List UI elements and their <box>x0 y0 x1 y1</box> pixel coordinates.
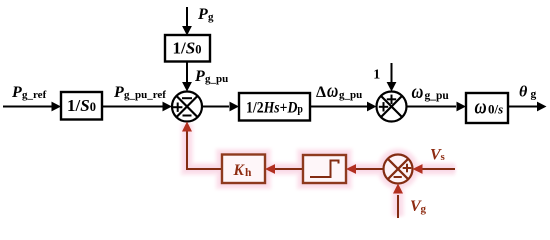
svg-text:g: g <box>208 11 214 23</box>
sign minus (bottom of junction 1) <box>183 115 192 117</box>
svg-text:g: g <box>421 203 427 215</box>
wire: junction1 to 1/2Hs+Dp <box>202 106 229 108</box>
summing junction 1 <box>172 92 202 122</box>
svg-text:0/s: 0/s <box>488 102 503 117</box>
arrowhead into box 1/S0 (top) <box>182 26 192 36</box>
sign minus (bottom of red junction) <box>394 176 402 178</box>
arrowhead into box 1/S0 (left) <box>52 102 62 112</box>
wire: Vg input (red, bottom) <box>397 195 399 218</box>
svg-text:g: g <box>531 89 537 101</box>
wire: P_g_ref input line <box>3 106 53 108</box>
svg-text:ω: ω <box>412 80 424 103</box>
svg-text:1: 1 <box>373 68 380 83</box>
sign plus (right of red junction) <box>403 167 412 169</box>
wire: P_g input (top) <box>186 7 188 27</box>
wire: delta omega_g_pu <box>310 106 368 108</box>
block Kh (red) <box>222 155 265 184</box>
arrowhead into summing junction 1 (top) <box>182 82 192 92</box>
red feedback: wire from Kh to junction 1 (corner) <box>187 131 222 170</box>
block 1/2Hs+Dp <box>239 93 310 121</box>
svg-text:ω: ω <box>475 96 487 119</box>
svg-text:K: K <box>233 162 246 179</box>
sign minus (top of junction 1) <box>182 97 192 99</box>
wire: theta_g output <box>508 106 537 108</box>
arrowhead into 1/2Hs+Dp <box>230 102 240 112</box>
block 1/S0 (left) <box>61 92 102 120</box>
red arrowhead into hysteresis (right) <box>346 164 356 174</box>
red arrowhead into red junction (right) <box>413 164 423 174</box>
red arrowhead into red junction (bottom) <box>393 184 403 194</box>
red arrowhead into junction 1 (bottom) <box>182 122 192 132</box>
block hysteresis (red) <box>303 155 346 183</box>
pink jpeg halo under red feedback path <box>187 124 455 216</box>
svg-text:s: s <box>441 151 446 163</box>
svg-text:ω: ω <box>327 79 338 101</box>
arrowhead into omega0/s block <box>457 102 467 112</box>
block 1/S0 (top) <box>165 35 210 62</box>
svg-text:h: h <box>245 167 252 179</box>
svg-text:P: P <box>197 6 208 23</box>
red summing junction (Vs - Vg) <box>384 155 413 184</box>
svg-text:g_pu: g_pu <box>339 89 362 101</box>
svg-text:P: P <box>113 84 124 101</box>
block omega0/s <box>466 93 508 123</box>
arrowhead output theta_g <box>537 102 547 112</box>
wire: hysteresis to Kh (red) <box>275 168 303 170</box>
sign plus (top of junction 2) <box>387 98 396 100</box>
svg-text:g_pu: g_pu <box>205 73 228 85</box>
wire: P_g_pu_ref <box>102 106 163 108</box>
hysteresis step symbol <box>310 161 340 179</box>
svg-text:P: P <box>194 68 205 85</box>
wire: omega_g_pu <box>407 106 457 108</box>
summing junction 2 <box>377 92 407 122</box>
arrowhead into summing junction 2 (left) <box>367 102 377 112</box>
svg-text:P: P <box>11 84 22 101</box>
arrowhead into summing junction 2 (top) <box>387 82 397 92</box>
red arrowhead into Kh (right) <box>265 164 275 174</box>
wire: multiplier to hysteresis (red) <box>356 168 384 170</box>
svg-text:g_ref: g_ref <box>22 89 47 101</box>
svg-text:Δ: Δ <box>316 84 326 101</box>
wire: P_g_pu <box>186 62 188 84</box>
wire: constant 1 input (top of junction 2) <box>391 63 393 83</box>
sign plus (left of junction 1) <box>173 106 182 108</box>
svg-text:θ: θ <box>519 84 528 101</box>
arrowhead into summing junction 1 (left) <box>163 102 173 112</box>
svg-text:1/2Hs+Dp: 1/2Hs+Dp <box>246 100 303 117</box>
sign plus (left of junction 2) <box>379 106 388 108</box>
svg-text:g_pu_ref: g_pu_ref <box>124 89 166 101</box>
wire: Vs input (red) <box>422 168 455 170</box>
svg-text:g_pu: g_pu <box>425 90 450 102</box>
